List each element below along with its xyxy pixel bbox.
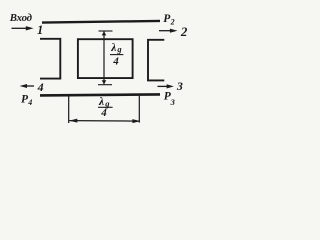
bottom dimension: right extension line (center of right branch): [138, 96, 140, 123]
svg-text:2: 2: [180, 24, 188, 39]
wire: top rail (top wall of main guide 1-2): [42, 21, 160, 23]
svg-text:3: 3: [170, 97, 176, 107]
left septum wall between ports 1 and 4 (open left bracket): [40, 39, 60, 79]
svg-text:g: g: [116, 44, 122, 54]
output arrow port 2: [159, 29, 178, 33]
bottom dimension: left extension line (center of left branch): [68, 96, 70, 123]
right septum wall between ports 2 and 3 (open right bracket): [148, 40, 164, 81]
svg-text:4: 4: [112, 56, 119, 68]
svg-text:3: 3: [176, 79, 183, 93]
output arrow port 4: [20, 84, 34, 88]
output arrow port 3: [158, 84, 174, 88]
svg-text:4: 4: [100, 107, 107, 119]
central island between branch guides: [78, 39, 133, 78]
svg-text:Вход: Вход: [9, 12, 33, 24]
svg-text:4: 4: [27, 98, 32, 107]
vertical dimension arrow lambda/4 between guide centerlines: [98, 31, 113, 85]
svg-text:2: 2: [170, 17, 175, 26]
input arrow port 1: [12, 26, 34, 30]
value label lambda_g/4 (horizontal spacing): [98, 96, 113, 119]
wire: bottom rail (bottom wall of main guide 4-3): [40, 94, 160, 95]
svg-text:λ: λ: [110, 42, 116, 54]
bottom dimension arrow lambda/4 between branch centerlines: [69, 119, 140, 124]
paper background: [0, 0, 208, 144]
svg-text:1: 1: [37, 23, 43, 37]
value label lambda_g/4 (vertical spacing): [110, 42, 123, 68]
svg-text:4: 4: [37, 80, 44, 94]
